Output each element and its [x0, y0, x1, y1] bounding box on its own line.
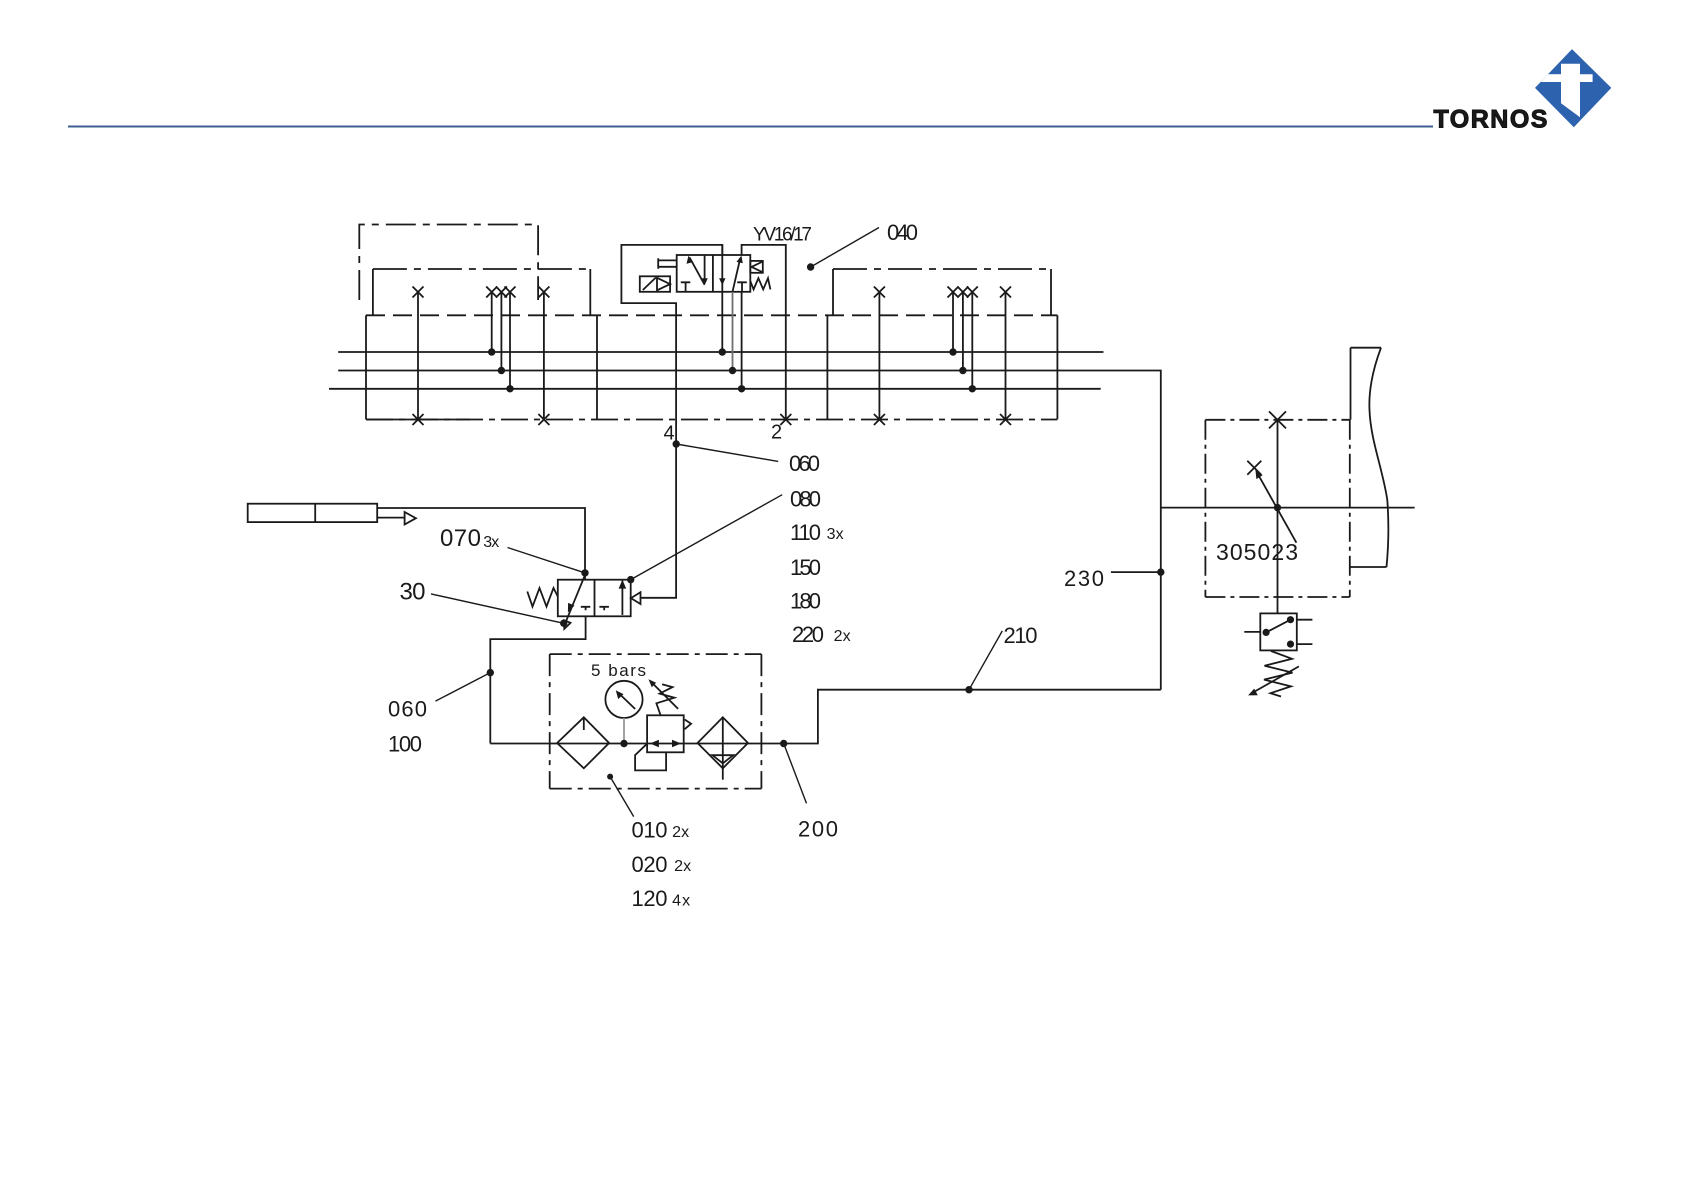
- svg-text:4x: 4x: [672, 892, 690, 909]
- svg-text:180: 180: [790, 589, 821, 614]
- valve YV16/17 middle cell down arrow: [701, 255, 707, 285]
- wire 230 stub: [1111, 571, 1161, 573]
- valve YV16/17 right cell exhaust T: [737, 282, 747, 292]
- machine boundary chain edge: [1349, 420, 1351, 597]
- station 1 body box: [366, 315, 597, 419]
- valve 070 left cell diagonal vent arrow: [564, 575, 585, 629]
- svg-text:YV16/17: YV16/17: [753, 224, 812, 245]
- label 070 3x with leader: [508, 548, 586, 573]
- labels 010 020 120 with leader: [610, 777, 634, 817]
- valve YV16/17 port line to bus3: [738, 292, 745, 393]
- manifold outer dash-dot enclosure (left group): [359, 225, 538, 301]
- labels 060 100 with leader: [436, 673, 491, 702]
- valve YV16/17 left cell flow arrow (diagonal up): [687, 256, 705, 285]
- filter 010 diamond: [557, 717, 609, 768]
- valve 070 return spring: [527, 588, 558, 607]
- node 200 leader: [780, 740, 807, 804]
- valve 070 right cell up arrow: [619, 580, 627, 615]
- regulator 020 square: [647, 715, 684, 752]
- cylinder piston: [314, 504, 316, 522]
- node 210 leader: [965, 631, 1002, 694]
- svg-text:30: 30: [399, 579, 425, 606]
- throttle big X on box top: [1269, 411, 1286, 428]
- station1 port line to bus2: [496, 287, 507, 375]
- pipe to machine: [1161, 507, 1415, 509]
- valve YV16/17 port line to bus1 (with down arrow in body): [719, 245, 726, 356]
- node gauge junction: [620, 740, 627, 747]
- station1 plugged line a: [413, 287, 424, 426]
- relief valve stubs: [1244, 620, 1312, 644]
- station 3 body box: [827, 315, 1057, 419]
- valve YV16/17 position divider: [712, 255, 714, 292]
- wire valve 070 out to FRL: [490, 616, 585, 743]
- svg-text:020: 020: [631, 852, 667, 877]
- svg-text:220: 220: [792, 622, 824, 647]
- FRL unit dash-dot box: [550, 653, 762, 655]
- bus line 1: [338, 351, 1103, 353]
- manifold top dashed joint line: [366, 314, 1057, 316]
- svg-text:230: 230: [1064, 566, 1104, 591]
- relief valve ports dots: [1287, 616, 1294, 623]
- regulator drain hook: [635, 744, 666, 771]
- svg-text:4: 4: [663, 422, 674, 444]
- gauge 120 circle: [605, 681, 642, 718]
- relief valve 220 square: [1260, 613, 1297, 650]
- station3 port line to bus3: [967, 287, 978, 393]
- node 010 leader dot: [607, 774, 613, 780]
- machine boundary edge: [1350, 348, 1352, 420]
- svg-text:150: 150: [790, 555, 821, 580]
- svg-text:200: 200: [798, 817, 838, 842]
- cylinder 030 body: [248, 504, 378, 522]
- valve YV16/17 return spring: [750, 278, 770, 289]
- svg-text:2x: 2x: [834, 628, 851, 645]
- lubricator bottom stem: [722, 768, 724, 779]
- bus line 3: [329, 388, 1101, 390]
- svg-text:2x: 2x: [672, 824, 689, 841]
- valve YV16/17 pilot solenoid box: [640, 276, 670, 292]
- port 4 line down to pilot of valve 070: [641, 315, 677, 598]
- valve 070 pilot triangle: [631, 592, 641, 604]
- relief spring adjust arrow: [1248, 666, 1299, 695]
- node 30 leader dot: [560, 620, 567, 627]
- valve YV16/17 left cell exhaust T: [681, 282, 691, 292]
- svg-text:210: 210: [1003, 623, 1037, 648]
- unit 305023 dash-dot box: [1205, 419, 1349, 421]
- lubricator drip triangle: [712, 755, 733, 763]
- lubricator center line: [722, 717, 724, 768]
- port 2 bottom plug X: [780, 414, 791, 425]
- relief valve spring: [1264, 651, 1293, 697]
- cylinder rod: [377, 517, 404, 519]
- cylinder rod arrow: [405, 512, 416, 525]
- station1 port line to bus1: [486, 287, 497, 356]
- valve 070 body: [558, 580, 631, 617]
- valve 070 divider: [594, 580, 596, 617]
- station 3 dash-dot top box: [833, 268, 1051, 270]
- station3 plugged line a: [874, 287, 885, 426]
- svg-text:5 bars: 5 bars: [591, 661, 646, 680]
- svg-text:010: 010: [631, 818, 667, 843]
- regulator relief triangle: [685, 720, 692, 730]
- bus line 2 (continues right and down to FRL output riser): [338, 371, 1161, 690]
- regulator adjusting spring: [656, 684, 674, 715]
- valve YV16/17 right cell flow arrow (diagonal up): [733, 256, 743, 292]
- svg-text:070: 070: [440, 525, 481, 552]
- station3 plugged line b: [1000, 287, 1011, 426]
- node 060/100 leader dot: [487, 669, 494, 676]
- header rule: [68, 126, 1433, 128]
- node 070 leader dot: [581, 569, 588, 576]
- svg-text:060: 060: [388, 696, 427, 721]
- valve YV16/17 enclosure right: [742, 245, 786, 420]
- small x restrictor mark: [1247, 461, 1261, 475]
- gauge stem: [623, 718, 625, 742]
- restrictor diagonal arrow: [1255, 470, 1296, 543]
- svg-text:040: 040: [887, 220, 918, 245]
- svg-text:120: 120: [631, 886, 667, 911]
- machine boundary torn edge: [1369, 348, 1388, 567]
- machine boundary top: [1351, 347, 1382, 349]
- relief valve poppet line: [1266, 620, 1290, 633]
- station1 port line to bus3: [505, 287, 516, 393]
- node 230 junction: [1157, 568, 1164, 575]
- node pipe junction: [1274, 504, 1281, 511]
- regulator flow arrows: [650, 740, 659, 748]
- svg-text:100: 100: [388, 731, 422, 756]
- TORNOS logo diamond: [1530, 49, 1611, 127]
- wire cylinder to valve 070: [377, 508, 585, 580]
- FRL supply bus line: [490, 690, 1161, 744]
- wire through 305023: [1277, 420, 1279, 614]
- label 080 with leader to valve 070: [627, 495, 782, 584]
- svg-text:3x: 3x: [483, 534, 499, 551]
- svg-text:3x: 3x: [827, 526, 844, 543]
- station3 port line to bus2: [957, 287, 968, 375]
- gauge needle: [616, 690, 635, 709]
- valve YV16/17 solenoid coil: [750, 261, 763, 273]
- valve YV16/17 enclosure left: [621, 245, 722, 315]
- label 30 with leader: [431, 594, 564, 623]
- station3 port line to bus1: [948, 287, 959, 356]
- svg-text:060: 060: [789, 451, 820, 476]
- machine boundary bottom: [1351, 566, 1387, 568]
- valve YV16/17 manual override button: [658, 258, 677, 269]
- manifold bottom dash-dot line: [366, 419, 470, 421]
- node 040 leader: [807, 228, 879, 271]
- svg-text:080: 080: [790, 486, 821, 511]
- filter element line: [583, 718, 585, 730]
- valve YV16/17 port line to bus2: [729, 292, 736, 374]
- svg-text:TORNOS: TORNOS: [1433, 105, 1549, 133]
- valve YV16/17 body: [677, 255, 751, 292]
- svg-text:305023: 305023: [1216, 539, 1298, 565]
- svg-text:2x: 2x: [674, 858, 691, 875]
- svg-text:110: 110: [790, 520, 821, 545]
- regulator spring arrow: [649, 679, 679, 709]
- station 1 dash-dot top box: [373, 268, 590, 270]
- valve 070 left cell T: [581, 607, 591, 611]
- station1 plugged line b: [538, 287, 549, 426]
- valve 070 right cell T: [599, 607, 609, 611]
- lubricator 110 diamond: [698, 717, 749, 768]
- node 060 leader on port4 line: [673, 440, 779, 461]
- svg-text:2: 2: [771, 421, 782, 443]
